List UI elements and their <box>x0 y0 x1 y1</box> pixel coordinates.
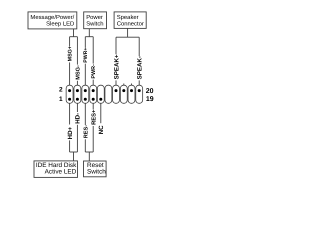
wire MSG- col2 lower <box>76 81 78 91</box>
svg-text:Speaker: Speaker <box>117 14 139 21</box>
box Power Switch <box>84 12 107 29</box>
svg-text:Switch: Switch <box>87 169 106 176</box>
wire SPEAK- col10 upper <box>138 37 140 56</box>
wire stub pin16 col8 <box>123 84 125 91</box>
pin 6 dot <box>84 89 87 92</box>
wire PWR+ col3 lower <box>84 64 86 91</box>
wire HD+ col1 bottom upper <box>69 99 71 124</box>
pin column 10 <box>136 85 143 103</box>
pin 5 dot <box>84 98 87 101</box>
wire RES- col3 bottom upper <box>84 99 86 125</box>
pin 18 dot <box>130 89 133 92</box>
svg-text:RES+: RES+ <box>90 109 97 125</box>
wire stub pin18 col9 <box>131 84 133 91</box>
pin column 2 <box>74 85 81 103</box>
box IDE Hard Disk Active LED <box>34 161 78 178</box>
svg-text:SPEAK+: SPEAK+ <box>113 54 120 79</box>
wire PWR- col4 lower <box>92 80 94 91</box>
wire SPEAK- col10 lower <box>138 80 140 90</box>
pin column 5 <box>97 85 104 103</box>
pin column 1 <box>66 85 73 103</box>
pin column 7 <box>113 85 120 103</box>
wire message stub <box>73 29 75 37</box>
pin column 6 <box>105 85 112 103</box>
wire NC col5 bottom <box>100 99 102 123</box>
header connector 2x10 <box>66 85 142 103</box>
wire HD+ col1 bottom lower <box>69 140 71 152</box>
wire MSG+ col1 upper <box>69 37 71 46</box>
wire hd stub <box>73 152 75 161</box>
wire power bar <box>85 36 93 38</box>
pin 20 dot <box>138 89 141 92</box>
wire reset stub <box>88 152 90 161</box>
pin 9 dot <box>99 98 102 101</box>
pin 3 dot <box>76 98 79 101</box>
wire PWR+ col3 upper <box>84 37 86 48</box>
svg-text:19: 19 <box>146 96 154 103</box>
svg-text:2: 2 <box>59 86 63 93</box>
pin 7 dot <box>92 98 95 101</box>
svg-text:PWR+: PWR+ <box>83 48 89 63</box>
wire RES- col3 bottom lower <box>84 139 86 152</box>
wire SPEAK+ col7 lower <box>115 80 117 90</box>
wire hd bar <box>70 151 78 153</box>
pin 16 dot <box>122 89 125 92</box>
wire power stub <box>88 29 90 37</box>
svg-text:20: 20 <box>146 88 154 95</box>
wire reset bar <box>85 151 93 153</box>
wire speaker bar <box>116 36 139 38</box>
box Reset Switch <box>84 161 107 177</box>
svg-text:Connector: Connector <box>117 20 144 27</box>
wire PWR- col4 upper <box>92 37 94 64</box>
svg-text:MSG-: MSG- <box>76 65 82 80</box>
pin column 3 <box>82 85 89 103</box>
pin 8 dot <box>92 89 95 92</box>
wire HD- col2 bottom lower <box>76 125 78 152</box>
svg-text:HD+: HD+ <box>67 126 74 139</box>
svg-text:Switch: Switch <box>86 20 103 27</box>
box Speaker Connector <box>114 12 146 29</box>
wire RES+ col4 bottom lower <box>92 126 94 152</box>
svg-text:Active LED: Active LED <box>45 169 77 176</box>
wire MSG- col2 upper <box>76 37 78 65</box>
pin 4 dot <box>76 89 79 92</box>
wire MSG+ col1 lower <box>69 62 71 90</box>
wire RES+ col4 bottom upper <box>92 99 94 109</box>
pin column 4 <box>90 85 97 103</box>
pin 14 dot <box>115 89 118 92</box>
svg-text:Message/Power/: Message/Power/ <box>30 14 74 21</box>
box Message/Power/Sleep LED <box>28 12 77 29</box>
wire speaker stub <box>127 28 129 37</box>
pin 2 dot <box>68 89 71 92</box>
svg-text:SPEAK-: SPEAK- <box>137 56 144 79</box>
svg-text:NC: NC <box>98 125 105 134</box>
pin 1 dot <box>68 98 71 101</box>
pin column 8 <box>120 85 127 103</box>
svg-text:MSG+: MSG+ <box>68 46 74 61</box>
svg-text:Power: Power <box>86 14 103 21</box>
svg-text:1: 1 <box>59 96 63 103</box>
pin column 9 <box>128 85 135 103</box>
wire SPEAK+ col7 upper <box>115 37 117 54</box>
wire message bar <box>70 36 78 38</box>
svg-text:PWR-: PWR- <box>91 64 97 79</box>
wire HD- col2 bottom upper <box>76 99 78 112</box>
svg-text:HD-: HD- <box>75 113 82 124</box>
svg-text:RES-: RES- <box>83 125 89 139</box>
svg-text:Sleep LED: Sleep LED <box>46 20 74 27</box>
